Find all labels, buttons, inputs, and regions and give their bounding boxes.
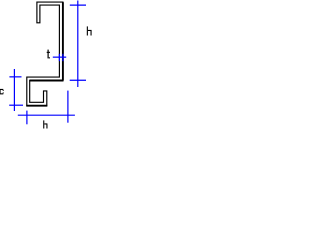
profile web outer face (thick): [62, 2, 64, 80]
label t: [47, 50, 50, 59]
dimension h line: [77, 1, 79, 88]
profile outline (lipped channel cross-section, thin lines): [27, 2, 63, 106]
label c: [0, 89, 4, 95]
dimension c bottom tick: [9, 104, 23, 106]
dimension b line: [18, 114, 75, 116]
dimension c line: [13, 69, 15, 111]
dimension t line: [53, 56, 66, 58]
dimension h bottom tick: [70, 79, 86, 81]
dimension b left extension: [26, 111, 28, 125]
profile bottom flange outer face (thick): [29, 80, 63, 82]
dimension h top tick: [70, 4, 86, 6]
dimension c top tick: [9, 76, 21, 78]
profile bottom strip outer face (thick): [26, 105, 47, 107]
dimension b right extension: [67, 91, 69, 123]
label b: [43, 120, 47, 128]
dimension t tick left: [58, 54, 60, 61]
dimension t tick right: [62, 54, 64, 61]
label h: [87, 26, 92, 35]
